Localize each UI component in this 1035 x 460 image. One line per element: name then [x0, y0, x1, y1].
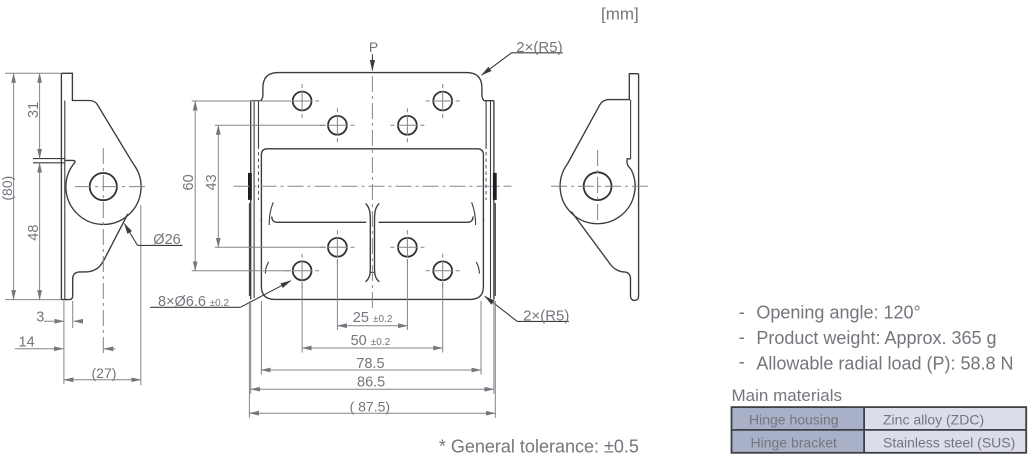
right bend arc: [472, 202, 476, 225]
housing lip hook: [627, 159, 631, 170]
hole bottom inner left: [328, 238, 347, 257]
dim 25 line: [337, 325, 407, 327]
dim (27) line: [64, 379, 141, 381]
housing plate top tab: [608, 74, 638, 100]
svg-text:31: 31: [26, 102, 42, 118]
svg-text:Stainless steel (SUS): Stainless steel (SUS): [883, 434, 1015, 450]
svg-text:3: 3: [36, 309, 44, 325]
main vertical centerline: [371, 76, 373, 308]
svg-text:2×(R5): 2×(R5): [523, 308, 569, 325]
housing plate right face: [638, 74, 640, 296]
housing lower diagonal and foot: [571, 212, 638, 301]
dim 60 line: [194, 101, 196, 271]
materials table left column fill: [732, 407, 865, 453]
dim (80) extension bottom: [5, 299, 61, 301]
left hidden flange dashed: [258, 152, 260, 200]
label 2xR5 top underline: [512, 52, 563, 54]
center slot flare left: [366, 204, 371, 282]
svg-text:Opening angle: 120°: Opening angle: 120°: [756, 303, 920, 323]
svg-text:Ø26: Ø26: [153, 232, 180, 248]
housing centerline horizontal: [551, 185, 649, 187]
dim 14 ext plate: [63, 301, 65, 384]
svg-text:Main materials: Main materials: [732, 386, 843, 405]
svg-text:(80): (80): [0, 176, 15, 201]
svg-text:86.5: 86.5: [357, 375, 385, 391]
svg-text:25: 25: [353, 310, 369, 326]
dim 14 arrow right: [104, 348, 116, 350]
hole top outer left: [293, 92, 312, 111]
svg-text:43: 43: [204, 174, 220, 190]
center slot tick: [370, 271, 375, 273]
housing pin hole: [584, 172, 612, 200]
housing band: [261, 149, 483, 223]
svg-text:14: 14: [19, 334, 35, 350]
dim (80) extension top: [5, 72, 61, 74]
svg-text:2×(R5): 2×(R5): [516, 39, 562, 56]
dim 31 line: [39, 73, 41, 158]
svg-text:(27): (27): [92, 365, 117, 381]
bracket plate inner face: [64, 101, 66, 300]
slot line upper: [33, 158, 65, 160]
hole bottom outer right: [433, 261, 452, 280]
dim 43 ext bottom: [215, 246, 326, 248]
left pivot black bar: [248, 173, 252, 200]
dim 86.5 line: [251, 388, 494, 390]
dim 14 arrow left: [54, 348, 64, 350]
svg-text:Hinge bracket: Hinge bracket: [751, 434, 837, 450]
dim 43 ext top: [215, 124, 326, 126]
bracket lip hook: [65, 160, 75, 162]
dim 25 ext left: [336, 259, 338, 330]
slot line lower: [33, 162, 65, 164]
right inner flange line: [485, 100, 487, 148]
housing knuckle outer curl: [560, 164, 635, 224]
lower plate top edge right: [379, 217, 474, 223]
lower plate outline: [261, 219, 483, 299]
svg-text:78.5: 78.5: [356, 356, 384, 372]
hole top inner left: [328, 116, 347, 135]
left bend arc: [269, 202, 273, 225]
dim 87.5 ext right: [494, 301, 496, 418]
bracket knuckle outer curl Ø26: [66, 162, 141, 224]
dim 78.5 ext left: [260, 301, 262, 375]
left outer face: [250, 100, 252, 299]
right small bend arc lower: [476, 262, 479, 274]
label 8xD6.6 underline: [150, 306, 240, 308]
housing left face upper: [630, 100, 632, 159]
right flange extreme line: [494, 203, 496, 296]
right pivot black bar: [493, 173, 497, 200]
dim 60 ext bottom: [192, 270, 291, 272]
svg-text:Zinc alloy (ZDC): Zinc alloy (ZDC): [883, 412, 984, 428]
dim 87.5 line: [249, 412, 495, 414]
label 2xR5 bottom underline: [517, 320, 569, 322]
svg-text:8×Ø6.6: 8×Ø6.6: [158, 294, 206, 310]
svg-text:P: P: [369, 39, 378, 55]
hole crosses: [285, 84, 460, 288]
left small bend arc lower: [265, 262, 268, 274]
label 2xR5 top leader: [482, 53, 512, 75]
right outer face: [493, 100, 495, 299]
dim 87.5 ext left: [248, 301, 250, 418]
centerline horizontal through hole: [75, 186, 147, 188]
dim 25 ext right: [406, 259, 408, 330]
dim 50 ext right: [442, 282, 444, 353]
lower plate top edge left: [272, 217, 367, 223]
bracket top tab: [61, 73, 133, 164]
svg-text:50: 50: [351, 333, 367, 349]
right inner face line: [490, 100, 492, 298]
svg-text:-: -: [739, 302, 745, 322]
left flange extreme line: [248, 203, 250, 296]
P load arrow: [371, 54, 373, 70]
materials table borders: [732, 407, 1027, 453]
dim 3 left segment: [44, 320, 64, 322]
svg-text:60: 60: [181, 174, 197, 190]
plate top edge with R5 corners: [261, 73, 484, 101]
dim 3 right segment: [74, 320, 83, 322]
main horizontal centerline: [234, 185, 512, 187]
dim 14 line left tail: [15, 348, 54, 350]
dim 78.5 line: [261, 369, 481, 371]
right step to full width: [484, 100, 494, 102]
dim (27) ext right: [140, 205, 142, 385]
centerline vertical through hole (extends to 14 dim): [102, 148, 104, 354]
svg-text:±0.2: ±0.2: [371, 337, 391, 348]
center slot flare right: [375, 204, 380, 282]
dim 48 line: [39, 163, 41, 300]
left inner face line: [253, 100, 255, 298]
svg-text:±0.2: ±0.2: [373, 314, 393, 325]
svg-text:Allowable radial load (P): 58.: Allowable radial load (P): 58.8 N: [756, 354, 1013, 374]
svg-text:±0.2: ±0.2: [210, 298, 230, 309]
right hidden flange dashed: [485, 152, 487, 200]
svg-text:* General tolerance: ±0.5: * General tolerance: ±0.5: [439, 437, 639, 457]
svg-text:Hinge housing: Hinge housing: [749, 412, 839, 428]
svg-text:-: -: [739, 327, 745, 347]
dim 78.5 ext right: [480, 301, 482, 375]
dim 86.5 ext right: [493, 301, 495, 394]
bracket lower diagonal and foot: [61, 214, 127, 300]
dim 50 ext left: [301, 282, 303, 353]
hole bottom outer left: [293, 261, 312, 280]
svg-text:48: 48: [26, 225, 42, 241]
svg-text:-: -: [739, 351, 745, 371]
label Ø26 leader: [124, 224, 137, 246]
label 2xR5 bottom leader: [485, 296, 518, 321]
dim 43 line: [217, 125, 219, 247]
left step to full width: [251, 100, 261, 102]
hinge pin hole Ø in side view: [90, 173, 117, 200]
label Ø26 underline: [138, 244, 183, 246]
housing centerline vertical: [597, 150, 599, 220]
label 8xD6.6 leader: [240, 281, 290, 308]
materials table right column fill: [864, 407, 1026, 453]
svg-text:( 87.5): ( 87.5): [350, 399, 390, 415]
dim 3 ext foot: [72, 301, 74, 328]
dim 86.5 ext left: [250, 301, 252, 394]
housing upper slope: [567, 100, 608, 164]
svg-text:Product weight: Approx. 365 g: Product weight: Approx. 365 g: [756, 328, 996, 348]
bracket plate outer face: [60, 73, 62, 299]
hole top outer right: [433, 92, 452, 111]
svg-text:[mm]: [mm]: [601, 4, 639, 23]
dim 60 ext top: [192, 100, 291, 102]
dim (80) line: [13, 73, 15, 299]
left inner flange line: [258, 100, 260, 148]
hole top inner right: [398, 116, 417, 135]
dim 50 line: [302, 347, 443, 349]
hole bottom inner right: [398, 238, 417, 257]
